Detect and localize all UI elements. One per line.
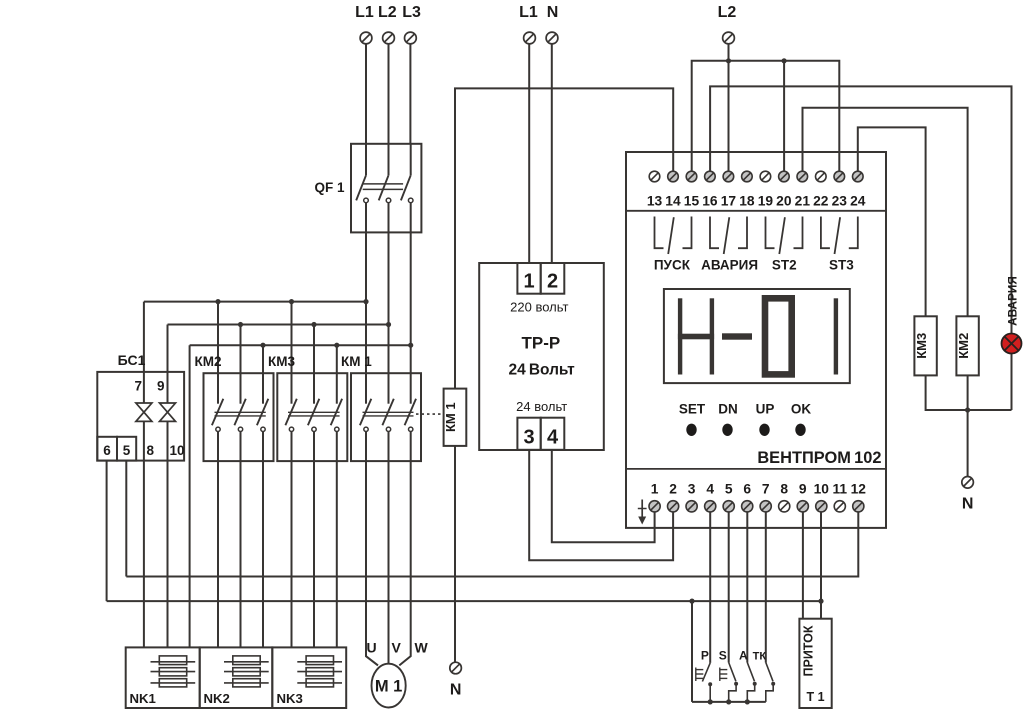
display dash <box>722 333 752 339</box>
wire phase-C drop to KM3 contact3 <box>336 345 338 373</box>
svg-text:12: 12 <box>851 482 867 497</box>
contactor КМ3 contact 2 <box>308 373 319 461</box>
svg-text:U: U <box>366 640 376 656</box>
svg-text:22: 22 <box>813 194 829 209</box>
controller terminal 3 (bottom) <box>686 482 697 512</box>
controller box <box>626 152 886 528</box>
coil KM2 box <box>956 316 978 375</box>
svg-text:3: 3 <box>688 482 696 497</box>
svg-text:ТР-Р: ТР-Р <box>522 334 561 353</box>
wire phase-C drop to KM2 contact3 <box>262 345 264 373</box>
svg-text:SET: SET <box>679 402 706 417</box>
terminal L2 <box>383 32 395 44</box>
svg-text:КМ2: КМ2 <box>956 333 971 359</box>
wire phase-A drop to KM2 contact1 <box>217 302 219 374</box>
svg-text:L2: L2 <box>718 4 737 21</box>
wire phase-B bus <box>168 324 389 326</box>
coil KM3 box <box>914 316 936 375</box>
heater block NK1 box <box>126 647 200 708</box>
svg-text:21: 21 <box>795 194 811 209</box>
junction phase-B / KM3 <box>311 322 316 327</box>
junction bus / terminal 20 wire <box>782 58 787 63</box>
wire L2 to controller terminal 17 <box>728 44 730 171</box>
svg-text:OK: OK <box>791 402 812 417</box>
svg-text:АВАРИЯ: АВАРИЯ <box>701 258 758 273</box>
contactor КМ 1 linkage bar <box>363 412 414 416</box>
controller terminal 1 (bottom) <box>649 482 660 512</box>
switch A (alarm) <box>747 663 756 702</box>
svg-text:23: 23 <box>832 194 848 209</box>
contactor КМ2 contact 2 <box>234 373 245 461</box>
wire BS1 pin5 down <box>125 461 127 577</box>
wire QF1 pole3 output to KM1 contact <box>410 232 412 373</box>
svg-text:5: 5 <box>725 482 733 497</box>
svg-text:14: 14 <box>665 194 681 209</box>
contactor КМ3 contact 1 <box>285 373 296 461</box>
svg-text:КМ3: КМ3 <box>914 333 929 359</box>
heater block NK3 box <box>272 647 346 708</box>
svg-text:8: 8 <box>147 443 155 458</box>
controller terminal 15 <box>684 171 700 208</box>
contactor КМ3 contacts box <box>277 373 347 461</box>
wire phase-B drop to BS1 valve 9 <box>167 325 169 404</box>
junction P / common <box>708 699 713 704</box>
valve 9 (BS1) <box>160 403 176 421</box>
switch S (pressure) <box>720 663 738 702</box>
display digit H <box>678 298 714 374</box>
controller bottom terminal strip line <box>626 468 886 470</box>
wire KM2 out2 to NK2 <box>240 461 242 647</box>
button DN <box>722 424 732 436</box>
svg-text:7: 7 <box>134 379 142 394</box>
wire BS1 pin6 down <box>106 461 108 601</box>
svg-text:4: 4 <box>547 427 559 449</box>
svg-text:18: 18 <box>739 194 755 209</box>
wire bus BS1-5 to terminal 12 <box>126 512 858 577</box>
display window <box>664 289 850 383</box>
controller terminal 20 <box>776 171 792 208</box>
controller terminal 10 (bottom) <box>814 482 830 512</box>
svg-text:ST3: ST3 <box>829 258 854 273</box>
wire switch common riser <box>691 601 693 702</box>
terminal box 5 (BS1) <box>117 437 136 461</box>
controller terminal 4 (bottom) <box>705 482 716 512</box>
svg-text:7: 7 <box>762 482 770 497</box>
svg-text:P: P <box>701 649 709 663</box>
controller terminal 11 (bottom) <box>833 482 848 512</box>
breaker QF1 box <box>351 144 421 233</box>
junction N node <box>965 407 970 412</box>
svg-text:10: 10 <box>170 443 185 458</box>
button UP <box>759 424 769 436</box>
terminal box 1 (TP-P) <box>517 263 540 294</box>
heater block NK2 box <box>200 647 273 708</box>
terminal L3 <box>405 32 417 44</box>
input contact group ST3 <box>821 217 858 255</box>
svg-text:S: S <box>719 649 727 663</box>
wire TP-P pin3 to controller terminal 2 <box>529 450 673 561</box>
wire bus to terminal 20 <box>783 61 785 171</box>
svg-text:N: N <box>962 496 974 513</box>
controller terminal 2 (bottom) <box>668 482 679 512</box>
breaker QF1 linkage bar <box>363 184 403 190</box>
svg-text:L2: L2 <box>378 4 397 21</box>
sensor T1 PRITOK box <box>799 619 831 708</box>
wire L2 to QF1 <box>388 44 390 144</box>
wire switch common bus <box>692 701 766 703</box>
svg-text:220 вольт: 220 вольт <box>510 300 568 315</box>
switch P (pressure) <box>696 663 712 702</box>
svg-text:W: W <box>414 640 428 656</box>
wire KM1 out3 to motor W <box>399 461 410 665</box>
button SET <box>686 424 696 436</box>
wire phase-A drop to KM3 contact1 <box>291 302 293 374</box>
wire L3 to QF1 <box>409 44 411 144</box>
block BS1 box <box>97 372 184 461</box>
input contact group ПУСК <box>655 217 692 255</box>
controller terminal 5 (bottom) <box>723 482 734 512</box>
controller terminal 16 <box>702 171 718 208</box>
svg-text:V: V <box>392 640 402 656</box>
contactor КМ3 contact 3 <box>331 373 342 461</box>
junction bus / L2 wire <box>726 58 731 63</box>
breaker QF1 pole 2 <box>379 144 391 233</box>
contactor КМ 1 contact 2 <box>382 373 393 461</box>
controller terminal 19 <box>758 171 774 208</box>
terminal N (right) <box>962 477 974 489</box>
wire KM1 coil bottom to N <box>454 446 456 663</box>
input contact group АВАРИЯ <box>710 217 747 255</box>
wire phase-A bus <box>144 301 366 303</box>
junction common bus / terminal 10 wire <box>818 599 823 604</box>
svg-text:КМ 1: КМ 1 <box>443 402 458 432</box>
wire KM2 out3 to NK2 <box>262 461 264 647</box>
breaker QF1 pole 3 <box>401 144 413 233</box>
heater element NK3 <box>297 656 342 687</box>
input contact group ST2 <box>766 217 803 255</box>
svg-text:L1: L1 <box>355 4 374 21</box>
controller terminal 6 (bottom) <box>742 482 753 512</box>
wire KM2 coil to N node <box>967 375 969 410</box>
display digit 1 <box>834 298 838 374</box>
junction phase-B / KM2 <box>238 322 243 327</box>
svg-text:15: 15 <box>684 194 700 209</box>
svg-text:ПРИТОК: ПРИТОК <box>802 625 816 676</box>
svg-text:8: 8 <box>780 482 788 497</box>
svg-text:6: 6 <box>103 443 111 458</box>
svg-text:ВЕНТПРОМ 102: ВЕНТПРОМ 102 <box>757 449 881 467</box>
junction phase-C / KM2 <box>260 343 265 348</box>
controller terminal 9 (bottom) <box>797 482 808 512</box>
junction phase-C / QF1 pole3 <box>408 343 413 348</box>
controller terminal 24 <box>850 171 866 208</box>
svg-text:NK3: NK3 <box>277 691 303 706</box>
svg-text:17: 17 <box>721 194 737 209</box>
wire terminal 10 to T1 <box>820 512 822 619</box>
ground arrow symbol <box>638 500 647 525</box>
wire alarm lamp to N node <box>1011 354 1013 411</box>
junction phase-B / QF1 pole2 <box>386 322 391 327</box>
wire N to TP-P pin2 <box>551 44 553 263</box>
wire KM3 out2 to NK3 <box>313 461 315 647</box>
switch TK (thermal contact) <box>766 663 775 702</box>
coil KM1 box <box>444 389 467 446</box>
wire KM1 out1 to motor U <box>366 461 378 665</box>
wire valve7 to NK1 <box>143 421 145 647</box>
wire terminal 6 to switch A <box>746 512 748 663</box>
contactor КМ3 linkage bar <box>288 412 340 416</box>
wire terminal 7 to switch TK <box>765 512 767 663</box>
terminal L2 (control) <box>723 32 735 44</box>
controller terminal 14 <box>665 171 681 208</box>
svg-text:2: 2 <box>547 271 558 293</box>
svg-text:10: 10 <box>814 482 830 497</box>
contactor КМ 1 contact 1 <box>360 373 371 461</box>
terminal box 4 (TP-P) <box>541 418 565 450</box>
svg-text:ST2: ST2 <box>772 258 797 273</box>
controller terminal 13 <box>647 171 663 208</box>
svg-text:1: 1 <box>523 271 534 293</box>
terminal N (220V) <box>546 32 558 44</box>
controller terminal 22 <box>813 171 829 208</box>
wire N node to terminal N <box>967 410 969 477</box>
svg-text:24: 24 <box>850 194 866 209</box>
alarm lamp AVARIYA <box>1002 334 1022 354</box>
svg-text:16: 16 <box>702 194 718 209</box>
junction phase-A / KM3 <box>289 299 294 304</box>
wire terminal 5 to switch S <box>728 512 730 663</box>
wire QF1 pole1 output to KM1 contact <box>365 232 367 373</box>
wire terminal 24 to KM3 coil <box>858 127 926 316</box>
terminal L1 <box>360 32 372 44</box>
wire TP-P pin4 to controller terminal 1 <box>552 450 655 543</box>
wire KM3 out1 to NK3 <box>291 461 293 647</box>
wire QF1 pole2 output to KM1 contact <box>388 232 390 373</box>
wire L1 to QF1 <box>365 44 367 144</box>
svg-text:L3: L3 <box>402 4 421 21</box>
terminal L1 (220V) <box>524 32 536 44</box>
controller terminal 17 <box>721 171 737 208</box>
contactor КМ2 contact 3 <box>257 373 268 461</box>
terminal box 3 (TP-P) <box>517 418 540 450</box>
junction common bus / switch riser <box>689 599 694 604</box>
contactor КМ 1 contacts box <box>351 373 421 461</box>
svg-text:N: N <box>547 4 559 21</box>
svg-text:A: A <box>739 649 748 663</box>
svg-text:QF 1: QF 1 <box>314 180 344 195</box>
svg-text:DN: DN <box>718 402 738 417</box>
svg-text:4: 4 <box>706 482 714 497</box>
svg-text:1: 1 <box>651 482 659 497</box>
svg-text:9: 9 <box>799 482 807 497</box>
wire valve9 to NK1 <box>167 421 169 647</box>
svg-text:КМ3: КМ3 <box>268 354 295 369</box>
svg-text:КМ 1: КМ 1 <box>341 354 372 369</box>
svg-text:АВАРИЯ: АВАРИЯ <box>1006 276 1020 326</box>
svg-text:2: 2 <box>669 482 677 497</box>
wire KM3 coil to N node <box>926 375 1012 410</box>
junction A / common <box>745 699 750 704</box>
wire terminal 21 to KM2 coil <box>803 108 968 317</box>
svg-text:19: 19 <box>758 194 774 209</box>
svg-text:L1: L1 <box>519 4 538 21</box>
wire phase-A drop to BS1 valve 7 <box>143 302 145 403</box>
controller terminal 8 (bottom) <box>779 482 790 512</box>
controller terminal 18 <box>739 171 755 208</box>
svg-text:11: 11 <box>833 482 848 497</box>
wire terminal 16 to alarm lamp <box>710 86 1011 334</box>
wire KM3 out3 to NK3 <box>336 461 338 647</box>
svg-text:9: 9 <box>157 379 165 394</box>
controller top terminal strip line <box>626 210 886 212</box>
terminal box 2 (TP-P) <box>541 263 565 294</box>
valve 7 (BS1) <box>136 403 152 421</box>
wire KM1 out2 to motor V <box>388 461 390 664</box>
junction S / common <box>726 699 731 704</box>
wire phase-C bus <box>190 344 411 346</box>
terminal box 6 (BS1) <box>97 437 117 461</box>
controller terminal 23 <box>832 171 848 208</box>
wire bus BS1-6 common <box>107 600 821 602</box>
button OK <box>795 424 805 436</box>
heater element NK1 <box>151 656 196 687</box>
junction phase-A / KM2 <box>215 299 220 304</box>
svg-text:БС1: БС1 <box>118 352 146 368</box>
svg-text:ТК: ТК <box>753 651 767 663</box>
contactor КМ 1 contact 3 <box>405 373 416 461</box>
junction phase-A / QF1 pole1 <box>363 299 368 304</box>
wire phase-B drop to KM3 contact2 <box>313 325 315 374</box>
controller terminal 21 <box>795 171 811 208</box>
motor M1 <box>372 664 406 708</box>
wire L1 to TP-P pin1 <box>528 44 530 263</box>
svg-text:NK1: NK1 <box>130 691 156 706</box>
wire terminal 9 to T1 <box>802 512 804 619</box>
svg-text:N: N <box>450 682 462 699</box>
svg-text:3: 3 <box>523 427 534 449</box>
wire phase-B drop to KM2 contact2 <box>240 325 242 374</box>
svg-text:6: 6 <box>743 482 751 497</box>
svg-text:24 Вольт: 24 Вольт <box>508 362 575 379</box>
breaker QF1 pole 1 <box>356 144 368 233</box>
terminal N (bottom) <box>450 662 462 674</box>
display digit 0 <box>765 298 792 374</box>
wire KM1 coil top to controller terminal 14 <box>455 88 673 388</box>
wire KM2 out1 to NK2 <box>217 461 219 647</box>
controller terminal 7 (bottom) <box>760 482 771 512</box>
svg-text:Т 1: Т 1 <box>806 690 824 704</box>
wire phase-C drop to NK1 <box>189 345 191 647</box>
wire terminal15-L2-20-23 bus <box>692 61 840 171</box>
svg-text:20: 20 <box>776 194 792 209</box>
svg-text:КМ2: КМ2 <box>195 354 222 369</box>
svg-text:UP: UP <box>756 402 775 417</box>
power supply TP-P box <box>479 263 604 450</box>
heater element NK2 <box>224 656 269 687</box>
contactor КМ2 contacts box <box>204 373 274 461</box>
contactor КМ2 linkage bar <box>215 412 266 416</box>
svg-text:13: 13 <box>647 194 663 209</box>
wire terminal 4 to switch P <box>709 512 711 663</box>
svg-text:5: 5 <box>123 443 131 458</box>
contactor КМ2 contact 1 <box>212 373 223 461</box>
svg-text:24 вольт: 24 вольт <box>516 399 567 414</box>
dotted linkage KM1 contacts to KM1 coil <box>416 413 444 415</box>
junction phase-C / KM3 <box>334 343 339 348</box>
svg-text:NK2: NK2 <box>204 691 230 706</box>
controller terminal 12 (bottom) <box>851 482 867 512</box>
svg-text:М 1: М 1 <box>375 678 403 696</box>
svg-text:ПУСК: ПУСК <box>654 258 691 273</box>
